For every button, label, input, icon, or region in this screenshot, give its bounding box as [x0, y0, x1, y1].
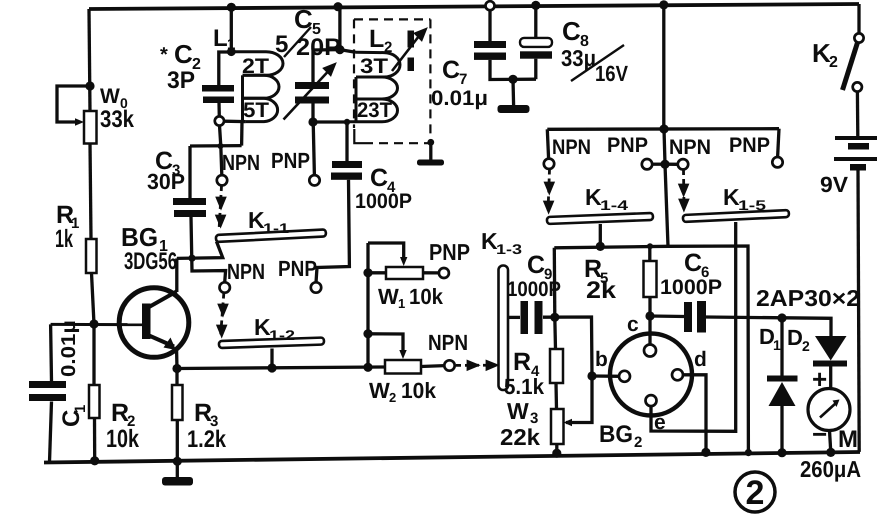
- svg-text:2: 2: [634, 434, 642, 451]
- svg-text:1: 1: [773, 337, 781, 353]
- svg-text:10k: 10k: [401, 378, 437, 403]
- svg-text:1000P: 1000P: [507, 278, 561, 301]
- svg-text:9V: 9V: [820, 172, 848, 197]
- svg-text:0.01μ: 0.01μ: [58, 320, 80, 377]
- svg-text:W: W: [507, 398, 529, 424]
- svg-text:16V: 16V: [595, 61, 628, 86]
- svg-text:BG: BG: [599, 421, 633, 448]
- svg-text:C: C: [527, 251, 545, 279]
- svg-text:C: C: [174, 39, 193, 69]
- svg-text:1.2k: 1.2k: [187, 426, 227, 453]
- svg-text:1-5: 1-5: [738, 197, 766, 213]
- svg-text:3T: 3T: [360, 55, 388, 78]
- svg-text:*: *: [160, 44, 168, 66]
- svg-text:3DG56: 3DG56: [124, 248, 177, 275]
- svg-text:C: C: [370, 164, 388, 192]
- svg-text:5.1k: 5.1k: [504, 374, 545, 399]
- svg-text:C: C: [442, 56, 460, 84]
- svg-text:20P: 20P: [296, 34, 341, 61]
- svg-text:PNP: PNP: [271, 148, 310, 173]
- svg-text:10k: 10k: [409, 284, 444, 309]
- svg-text:e: e: [654, 411, 666, 434]
- svg-text:PNP: PNP: [278, 256, 317, 281]
- svg-text:W: W: [369, 378, 390, 403]
- svg-text:L: L: [369, 25, 384, 53]
- svg-text:NPN: NPN: [428, 330, 468, 355]
- svg-text:1-3: 1-3: [496, 241, 522, 257]
- svg-text:1000P: 1000P: [660, 276, 722, 299]
- svg-text:c: c: [627, 313, 639, 336]
- svg-text:1: 1: [227, 36, 235, 53]
- svg-text:NPN: NPN: [222, 150, 260, 175]
- svg-text:L: L: [213, 25, 228, 52]
- svg-text:2: 2: [389, 390, 396, 405]
- svg-text:W: W: [100, 85, 120, 108]
- svg-text:C: C: [562, 16, 581, 46]
- svg-text:d: d: [694, 348, 707, 371]
- svg-text:33k: 33k: [100, 106, 135, 133]
- svg-text:1-1: 1-1: [263, 220, 289, 236]
- svg-text:NPN: NPN: [669, 136, 711, 159]
- svg-text:2T: 2T: [242, 55, 269, 78]
- svg-text:NPN: NPN: [552, 136, 591, 159]
- svg-text:2k: 2k: [586, 277, 617, 304]
- svg-text:1: 1: [72, 405, 89, 413]
- svg-text:1: 1: [398, 296, 405, 311]
- svg-text:1-2: 1-2: [269, 327, 295, 343]
- svg-text:2: 2: [746, 474, 765, 512]
- svg-text:1000P: 1000P: [355, 190, 412, 213]
- svg-text:R: R: [513, 348, 531, 376]
- svg-text:−: −: [812, 419, 827, 449]
- svg-text:W: W: [378, 284, 399, 309]
- svg-text:7: 7: [459, 71, 467, 88]
- svg-text:+: +: [812, 364, 827, 394]
- svg-text:D: D: [787, 325, 803, 350]
- svg-text:2: 2: [829, 54, 838, 71]
- svg-text:PNP: PNP: [607, 134, 648, 157]
- svg-text:1k: 1k: [55, 225, 73, 253]
- svg-text:1-4: 1-4: [600, 197, 628, 213]
- svg-text:M: M: [838, 426, 858, 453]
- svg-text:3P: 3P: [167, 67, 195, 94]
- svg-text:5T: 5T: [243, 99, 269, 122]
- svg-text:PNP: PNP: [729, 134, 770, 157]
- svg-text:260μA: 260μA: [800, 456, 861, 482]
- svg-text:30P: 30P: [147, 169, 185, 194]
- svg-text:b: b: [595, 348, 608, 371]
- svg-text:10k: 10k: [106, 425, 139, 453]
- svg-text:PNP: PNP: [429, 239, 470, 265]
- svg-text:23T: 23T: [357, 99, 392, 122]
- svg-text:NPN: NPN: [227, 259, 265, 284]
- svg-text:C: C: [684, 249, 702, 277]
- svg-text:22k: 22k: [500, 424, 540, 450]
- svg-text:2: 2: [384, 39, 392, 56]
- svg-text:2AP30×2: 2AP30×2: [756, 285, 860, 311]
- svg-text:2: 2: [802, 338, 810, 354]
- svg-text:0.01μ: 0.01μ: [431, 87, 488, 110]
